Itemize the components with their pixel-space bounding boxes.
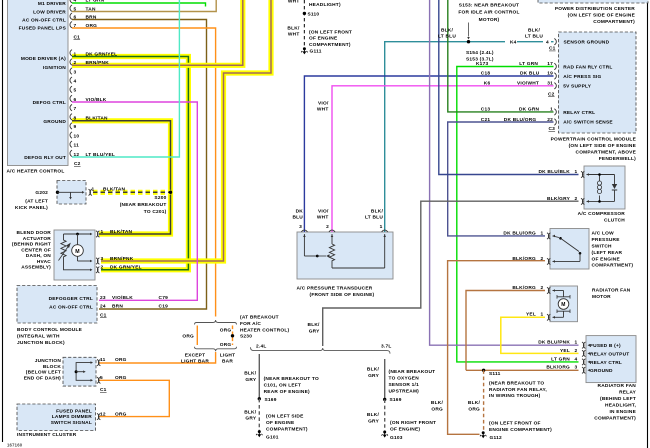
svg-text:BAR: BAR <box>222 358 233 364</box>
svg-text:BLK/ORG: BLK/ORG <box>512 256 536 262</box>
svg-text:C2: C2 <box>548 91 555 97</box>
svg-text:(ON LEFT FRONT: (ON LEFT FRONT <box>309 29 352 35</box>
svg-text:C3: C3 <box>549 126 556 132</box>
svg-text:S169: S169 <box>390 397 402 403</box>
wire VIO/WHT (transducer pin 2 to PCM pin 31) <box>332 86 554 232</box>
svg-text:17: 17 <box>547 61 553 67</box>
svg-text:VIO/WHT: VIO/WHT <box>517 81 539 87</box>
svg-text:FOR A/C: FOR A/C <box>240 321 261 327</box>
svg-text:22: 22 <box>547 117 553 123</box>
svg-text:YEL: YEL <box>526 312 536 318</box>
svg-text:GRY: GRY <box>309 328 320 334</box>
svg-text:BLK/: BLK/ <box>244 371 257 377</box>
svg-text:ORG: ORG <box>220 342 232 348</box>
svg-text:7: 7 <box>74 23 77 29</box>
svg-text:(ON LEFT FRONT OF: (ON LEFT FRONT OF <box>489 421 541 427</box>
svg-text:(INTEGRAL WITH: (INTEGRAL WITH <box>17 334 60 340</box>
svg-text:BLK/: BLK/ <box>367 367 380 373</box>
svg-text:G202: G202 <box>35 190 48 196</box>
svg-text:ORG: ORG <box>220 327 232 333</box>
wire DK GRN/YEL (mode driver A: heater pin 1 to blend door pin 2, highlighted) <box>72 57 188 270</box>
wire LT GRN (PCM pin 17 rad fan rly ctrl to relay pin 4) <box>457 67 579 362</box>
svg-text:LIGHT: LIGHT <box>220 352 236 358</box>
splice S110 <box>303 12 306 15</box>
splice S169 (3.7L) <box>383 398 386 401</box>
svg-text:WHT: WHT <box>317 215 329 221</box>
svg-text:FOR IDLE AIR CONTROL: FOR IDLE AIR CONTROL <box>458 10 519 16</box>
wire LT BLU/YEL (defog rly out: heater pin 12, exits top) <box>72 0 179 157</box>
svg-text:(LEFT REAR: (LEFT REAR <box>592 250 623 256</box>
svg-text:(AT LEFT: (AT LEFT <box>25 199 48 205</box>
blend door actuator internals: motor M and variable resistor <box>64 233 91 235</box>
svg-text:FUSED PANEL LPS: FUSED PANEL LPS <box>19 25 67 31</box>
S153 callout arrow <box>468 23 470 37</box>
svg-text:K6: K6 <box>484 81 491 87</box>
svg-text:COMPARTMENT): COMPARTMENT) <box>593 19 635 25</box>
svg-text:POWER DISTRIBUTION CENTER: POWER DISTRIBUTION CENTER <box>555 6 635 12</box>
svg-text:LOW DRIVER: LOW DRIVER <box>33 9 66 15</box>
svg-text:FUSED B (+): FUSED B (+) <box>590 343 621 349</box>
svg-text:M: M <box>561 302 565 308</box>
junction block box <box>63 357 96 386</box>
wire DK BLU/BLK (from top to A/C compressor clutch pin 1) <box>439 0 579 175</box>
svg-text:MODE DRIVER (A): MODE DRIVER (A) <box>21 56 66 62</box>
radiator fan motor internals <box>547 287 549 293</box>
wire DK BLU (transducer pin 3 to PCM pin 19) <box>304 76 553 232</box>
svg-text:DK BLU/ORG: DK BLU/ORG <box>503 230 536 236</box>
svg-text:K4: K4 <box>510 40 517 46</box>
svg-text:BRN/PNK: BRN/PNK <box>110 256 134 262</box>
svg-text:TO OXYGEN: TO OXYGEN <box>389 376 420 382</box>
ground G112 <box>482 431 485 434</box>
power distribution center box fragment (cut off at top) <box>538 0 648 3</box>
svg-text:BRN: BRN <box>112 304 123 310</box>
svg-text:C101, ON LEFT: C101, ON LEFT <box>264 383 302 389</box>
svg-text:11: 11 <box>74 143 80 149</box>
svg-text:3.7L: 3.7L <box>381 343 391 349</box>
svg-text:GRY: GRY <box>245 416 256 422</box>
wire DK BLU/ORG (PCM pin 22 to A/C low pressure switch pin 1) <box>448 122 554 236</box>
junction block internals: bus with arrows <box>76 363 91 381</box>
svg-text:ASSEMBLY): ASSEMBLY) <box>21 265 51 271</box>
svg-text:DK BLU: DK BLU <box>520 71 540 77</box>
svg-text:GRY: GRY <box>245 377 256 383</box>
svg-text:BLU: BLU <box>292 215 303 221</box>
radiator fan motor box <box>550 286 578 322</box>
svg-text:(BEHIND LEFT: (BEHIND LEFT <box>600 396 636 402</box>
svg-text:ENGINE COMPARTMENT): ENGINE COMPARTMENT) <box>489 427 552 433</box>
svg-text:A/C COMPRESSOR: A/C COMPRESSOR <box>578 211 626 217</box>
svg-text:(NEAR BREAKOUT: (NEAR BREAKOUT <box>389 369 436 375</box>
page left border <box>2 0 4 442</box>
svg-text:OF ENGINE): OF ENGINE) <box>390 427 420 433</box>
svg-text:S111: S111 <box>489 371 501 377</box>
svg-text:1: 1 <box>575 340 578 346</box>
svg-text:ORG: ORG <box>468 406 480 412</box>
svg-text:COMPARTMENT): COMPARTMENT) <box>266 427 308 433</box>
instrument cluster pin 12 connector <box>97 413 99 419</box>
svg-text:VIO/BLK: VIO/BLK <box>86 97 107 103</box>
svg-text:BLEND DOOR: BLEND DOOR <box>17 230 52 236</box>
svg-text:(ON LEFT SIDE: (ON LEFT SIDE <box>266 414 304 420</box>
svg-text:LT GRN: LT GRN <box>551 356 570 362</box>
splice S230 <box>231 334 234 337</box>
svg-text:M: M <box>75 249 80 255</box>
svg-text:4: 4 <box>74 78 77 84</box>
svg-text:167160: 167160 <box>7 443 23 448</box>
svg-text:BRN: BRN <box>86 14 97 20</box>
svg-text:COMPARTMENT, ABOVE: COMPARTMENT, ABOVE <box>576 149 637 155</box>
wire BLK/LT BLU (transducer pin 1 to PCM pin 4 via S153/S154) <box>385 42 554 232</box>
svg-text:(NEAR BREAKOUT: (NEAR BREAKOUT <box>120 202 167 208</box>
svg-text:DEFOG CTRL: DEFOG CTRL <box>33 100 66 106</box>
svg-text:BLK/: BLK/ <box>431 400 444 406</box>
svg-text:(ON LEFT SIDE OF ENGINE: (ON LEFT SIDE OF ENGINE <box>569 143 637 149</box>
svg-text:CLUTCH: CLUTCH <box>604 218 625 224</box>
svg-text:WHT: WHT <box>317 107 329 113</box>
svg-text:24: 24 <box>100 304 106 310</box>
radiator fan relay box <box>586 336 636 383</box>
svg-text:RADIATOR FAN RELAY,: RADIATOR FAN RELAY, <box>489 387 547 393</box>
svg-text:C18: C18 <box>481 71 491 77</box>
svg-text:LT GRN: LT GRN <box>86 0 105 4</box>
radiator fan relay pin connectors <box>582 342 584 348</box>
svg-text:12: 12 <box>74 152 80 158</box>
svg-text:ORG: ORG <box>115 357 127 363</box>
svg-text:LIGHT BAR: LIGHT BAR <box>181 358 209 364</box>
svg-text:19: 19 <box>547 71 553 77</box>
svg-text:ORG: ORG <box>182 333 194 339</box>
A/C pressure transducer box <box>297 232 393 279</box>
svg-text:ORG: ORG <box>115 375 127 381</box>
ground G103 <box>383 431 386 434</box>
svg-text:IGNITION: IGNITION <box>43 65 66 71</box>
svg-text:4: 4 <box>74 0 77 4</box>
A/C low pressure switch internals <box>547 233 549 239</box>
svg-text:GRY: GRY <box>368 373 379 379</box>
svg-text:C13: C13 <box>481 107 491 113</box>
svg-text:DK BLU/ORG: DK BLU/ORG <box>504 117 537 123</box>
svg-text:C1: C1 <box>100 387 107 393</box>
svg-text:A/C LOW: A/C LOW <box>592 231 615 237</box>
svg-text:BRN/PNK: BRN/PNK <box>86 60 110 66</box>
svg-text:WHT: WHT <box>288 32 300 38</box>
page right border <box>647 0 649 448</box>
svg-text:(AT BREAKOUT: (AT BREAKOUT <box>240 314 279 320</box>
svg-text:2: 2 <box>326 224 329 230</box>
svg-text:CENTER OF: CENTER OF <box>21 247 51 253</box>
A/C low pressure switch box <box>550 229 589 270</box>
svg-text:1: 1 <box>541 312 544 318</box>
svg-text:A/C PRESS SIG: A/C PRESS SIG <box>563 74 601 80</box>
svg-text:4: 4 <box>575 356 578 362</box>
svg-text:3: 3 <box>575 365 578 371</box>
svg-text:BLK/: BLK/ <box>528 27 541 33</box>
brace split BLK/GRY 2.4L/3.7L <box>251 347 391 353</box>
svg-text:(ON RIGHT FRONT: (ON RIGHT FRONT <box>390 420 436 426</box>
svg-text:DEFOG RLY OUT: DEFOG RLY OUT <box>24 155 66 161</box>
svg-text:1: 1 <box>74 51 77 57</box>
svg-text:AC ON-OFF CTRL: AC ON-OFF CTRL <box>49 305 93 311</box>
svg-text:KICK PANEL): KICK PANEL) <box>15 205 48 211</box>
svg-text:LT BLU: LT BLU <box>365 215 383 221</box>
svg-text:FENDERWELL): FENDERWELL) <box>599 156 636 162</box>
svg-text:DK GRN: DK GRN <box>519 107 540 113</box>
svg-text:11: 11 <box>100 357 106 363</box>
wire ORG except-light-bar branch <box>196 326 198 346</box>
A/C compressor clutch box <box>584 166 625 209</box>
svg-text:BLK/TAN: BLK/TAN <box>86 116 109 122</box>
wire BLK/ORG (S111 to relay pin 3 ground) <box>466 369 579 371</box>
wire YEL (radiator fan motor pin 1 to relay pin 2) <box>501 317 579 353</box>
svg-text:BLK/: BLK/ <box>287 25 300 31</box>
svg-text:9: 9 <box>74 124 77 130</box>
svg-text:COMPARTMENT): COMPARTMENT) <box>594 416 636 422</box>
svg-text:DEFOGGER CTRL: DEFOGGER CTRL <box>49 296 93 302</box>
svg-text:31: 31 <box>547 81 553 87</box>
svg-text:10: 10 <box>74 133 80 139</box>
svg-text:5: 5 <box>74 6 77 12</box>
wire BLK/GRY 2.4L branch to S169 <box>258 354 260 399</box>
svg-text:3: 3 <box>74 69 77 75</box>
svg-text:LT BLU/YEL: LT BLU/YEL <box>86 152 116 158</box>
svg-text:BLK/: BLK/ <box>371 208 384 214</box>
svg-text:DK GRN/YEL: DK GRN/YEL <box>110 265 142 271</box>
svg-text:DASH, ON: DASH, ON <box>26 253 52 259</box>
wire DK GRN (from top to PCM pin 1 relay ctrl) <box>448 0 554 112</box>
svg-text:(FRONT SIDE OF ENGINE): (FRONT SIDE OF ENGINE) <box>310 292 375 298</box>
svg-text:BLK/GRY: BLK/GRY <box>547 196 571 202</box>
A/C heater control pin connectors <box>70 0 72 3</box>
svg-text:WHT: WHT <box>288 0 300 4</box>
svg-text:(NEAR BREAKOUT TO: (NEAR BREAKOUT TO <box>489 380 544 386</box>
svg-text:DK GRN/YEL: DK GRN/YEL <box>86 51 118 57</box>
svg-text:JUNCTION BLOCK): JUNCTION BLOCK) <box>17 340 65 346</box>
PCM pin connectors <box>554 39 556 45</box>
svg-text:ORG: ORG <box>86 23 98 29</box>
svg-text:4: 4 <box>546 40 549 46</box>
svg-text:G111: G111 <box>310 48 322 54</box>
svg-text:POWERTRAIN CONTROL MODULE: POWERTRAIN CONTROL MODULE <box>551 136 637 142</box>
svg-text:HVAC: HVAC <box>37 259 51 265</box>
svg-text:SENSOR 1/1: SENSOR 1/1 <box>389 382 420 388</box>
svg-text:LAMPS DIMMER: LAMPS DIMMER <box>52 414 93 420</box>
svg-text:RELAY OUTPUT: RELAY OUTPUT <box>590 351 629 357</box>
wire BRN (AC on-off ctrl: heater pin 6 to BCM pin 24) <box>72 20 207 310</box>
svg-text:AC ON-OFF CTRL: AC ON-OFF CTRL <box>22 17 66 23</box>
svg-text:BLK/: BLK/ <box>468 400 481 406</box>
wire BRN/PNK (ignition: heater pin 2, exits top, highlighted) <box>72 0 243 65</box>
svg-text:TAN: TAN <box>86 6 96 12</box>
svg-text:K173: K173 <box>476 61 488 67</box>
svg-text:A/C PRESSURE TRANSDUCER: A/C PRESSURE TRANSDUCER <box>297 286 373 292</box>
svg-text:12: 12 <box>100 411 106 417</box>
wire BLK/GRY dashed to G103 <box>384 399 386 431</box>
svg-text:FUSED PANEL: FUSED PANEL <box>56 408 92 414</box>
svg-text:A/C SWITCH SENSE: A/C SWITCH SENSE <box>563 120 613 126</box>
svg-text:SWITCH: SWITCH <box>592 244 613 250</box>
svg-text:C2: C2 <box>74 161 81 167</box>
svg-text:VIO/: VIO/ <box>318 100 329 106</box>
svg-text:RELAY CTRL: RELAY CTRL <box>590 360 622 366</box>
svg-text:BLK/: BLK/ <box>441 27 454 33</box>
svg-text:S154 (2.4L): S154 (2.4L) <box>466 50 494 56</box>
svg-text:YEL: YEL <box>560 348 570 354</box>
svg-text:HEATER CONTROL): HEATER CONTROL) <box>240 327 289 333</box>
svg-text:(ON LEFT SIDE OF ENGINE: (ON LEFT SIDE OF ENGINE <box>568 13 636 19</box>
svg-text:5: 5 <box>74 88 77 94</box>
svg-text:2.4L: 2.4L <box>256 343 266 349</box>
svg-text:MOTOR): MOTOR) <box>479 17 500 23</box>
svg-text:1: 1 <box>92 187 95 193</box>
svg-text:JUNCTION: JUNCTION <box>35 358 62 364</box>
svg-text:C1: C1 <box>74 34 81 40</box>
svg-text:BLK/ORG: BLK/ORG <box>512 285 536 291</box>
splice S111 <box>482 369 485 372</box>
ground G101 <box>258 430 261 433</box>
svg-text:DK BLU/BLK: DK BLU/BLK <box>538 169 570 175</box>
wire BLK/ORG dashed (S111 to G112) <box>483 370 485 431</box>
svg-text:BLK/ORG: BLK/ORG <box>546 365 570 371</box>
svg-text:RELAY CTRL: RELAY CTRL <box>563 110 595 116</box>
A/C heater control connector box <box>8 0 69 166</box>
wire ORG (fused panel lps, pin 7 down to light-bar split) <box>72 28 216 317</box>
A/C pressure transducer internals: potentiometer <box>301 230 307 232</box>
svg-text:6: 6 <box>74 14 77 20</box>
svg-text:C1: C1 <box>100 313 107 319</box>
wire DK BLU/PNK (from top to relay pin 1 fused B+) <box>430 0 579 345</box>
ground G111 <box>303 47 306 50</box>
svg-text:LT GRN: LT GRN <box>519 61 538 67</box>
svg-text:OF ENGINE: OF ENGINE <box>309 36 338 42</box>
svg-text:S230: S230 <box>240 334 252 340</box>
wire BLK/WHT dashed (S110 to G111) <box>303 0 305 49</box>
svg-text:BLK/TAN: BLK/TAN <box>110 229 133 235</box>
svg-text:2: 2 <box>541 285 544 291</box>
svg-text:(NEAR BREAKOUT TO: (NEAR BREAKOUT TO <box>264 376 319 382</box>
svg-text:ORG: ORG <box>115 411 127 417</box>
svg-text:ACTUATOR: ACTUATOR <box>23 236 52 242</box>
svg-text:S153: NEAR BREAKOUT: S153: NEAR BREAKOUT <box>459 2 519 8</box>
svg-text:1: 1 <box>575 169 578 175</box>
wire BLK/GRY (compressor clutch pin 2 down to engine ground split) <box>323 201 579 346</box>
body control module box <box>17 286 97 324</box>
svg-text:6: 6 <box>74 97 77 103</box>
wire BRN/PNK (blend door pin 3, exits top, highlighted) <box>101 0 271 261</box>
svg-text:7: 7 <box>74 106 77 112</box>
svg-text:IN ENGINE: IN ENGINE <box>609 409 636 415</box>
svg-text:M1 DRIVER: M1 DRIVER <box>38 1 66 7</box>
svg-text:2: 2 <box>101 265 104 271</box>
svg-text:BODY CONTROL MODULE: BODY CONTROL MODULE <box>17 327 83 333</box>
svg-text:DK: DK <box>296 208 304 214</box>
svg-text:GROUND: GROUND <box>590 368 613 374</box>
powertrain control module box <box>559 32 637 133</box>
wire ORG light-bar branch (dashed) with splice S230 <box>232 326 234 346</box>
brace rejoin ORG (bottom) <box>195 347 237 352</box>
svg-text:OF ENGINE: OF ENGINE <box>266 420 295 426</box>
svg-text:BLK/: BLK/ <box>244 409 257 415</box>
svg-text:EXCEPT: EXCEPT <box>185 352 206 358</box>
wire BLK/GRY dashed to G101 <box>258 399 260 431</box>
svg-text:G101: G101 <box>266 435 279 441</box>
brace split ORG except/light bar (top) <box>195 320 237 325</box>
svg-text:C21: C21 <box>481 117 491 123</box>
svg-text:8: 8 <box>74 116 77 122</box>
svg-text:1: 1 <box>101 229 104 235</box>
G202 ground splice box <box>57 181 86 205</box>
wire LT GRN (M1 driver, pin 4, ends with stub) <box>72 3 206 7</box>
svg-text:BLK/: BLK/ <box>367 412 380 418</box>
svg-text:2: 2 <box>575 196 578 202</box>
svg-text:G112: G112 <box>490 435 502 441</box>
svg-text:IN WIRING TROUGH): IN WIRING TROUGH) <box>489 393 541 399</box>
svg-text:3: 3 <box>299 224 302 230</box>
svg-text:RADIATOR FAN: RADIATOR FAN <box>592 287 631 293</box>
wire ORG junction block pin 5 to instrument cluster pin 12 <box>99 380 169 416</box>
svg-text:2: 2 <box>575 348 578 354</box>
A/C compressor clutch internals: coil and diode <box>581 171 583 177</box>
svg-text:LT BLU: LT BLU <box>525 34 543 40</box>
wire BLK/GRY 3.7L branch to S169 <box>384 359 386 399</box>
svg-text:BLK/: BLK/ <box>308 322 321 328</box>
svg-text:2: 2 <box>74 60 77 66</box>
svg-text:COMPARTMENT): COMPARTMENT) <box>592 263 634 269</box>
svg-text:23: 23 <box>100 295 106 301</box>
svg-text:C1: C1 <box>549 46 556 52</box>
svg-text:S110: S110 <box>308 11 320 17</box>
wire TAN (low driver, pin 5, exits top) <box>72 0 216 12</box>
svg-text:A/C HEATER CONTROL: A/C HEATER CONTROL <box>7 169 65 175</box>
instrument cluster box <box>17 404 96 431</box>
svg-text:SENSOR GROUND: SENSOR GROUND <box>564 40 610 46</box>
svg-text:1: 1 <box>380 224 383 230</box>
svg-text:(BEHIND RIGHT: (BEHIND RIGHT <box>12 242 51 248</box>
svg-text:GROUND: GROUND <box>43 119 66 125</box>
wire VIO/BLK (defog ctrl: heater pin 6 to BCM pin 23) <box>72 102 197 300</box>
svg-text:UPSTREAM): UPSTREAM) <box>389 389 420 395</box>
svg-text:RELAY: RELAY <box>619 390 636 396</box>
svg-text:5V SUPPLY: 5V SUPPLY <box>563 83 592 89</box>
svg-text:C79: C79 <box>159 295 169 301</box>
svg-text:HEADLIGHT): HEADLIGHT) <box>309 2 341 8</box>
splice S153/S154 <box>467 40 470 43</box>
svg-text:5: 5 <box>100 375 103 381</box>
svg-text:OF ENGINE: OF ENGINE <box>592 256 621 262</box>
wire ORG to junction block pin 11 <box>99 352 216 363</box>
svg-text:BLK/TAN: BLK/TAN <box>103 187 126 193</box>
svg-text:END OF DASH): END OF DASH) <box>24 375 61 381</box>
svg-text:COMPARTMENT): COMPARTMENT) <box>309 42 351 48</box>
svg-text:HEADLIGHT,: HEADLIGHT, <box>605 403 636 409</box>
svg-text:TO C201): TO C201) <box>144 209 167 215</box>
svg-text:G103: G103 <box>390 435 403 441</box>
svg-text:S169: S169 <box>265 397 277 403</box>
svg-text:S200: S200 <box>154 195 166 201</box>
splice S169 (2.4L) <box>258 397 261 400</box>
wire BLK/ORG (radiator fan motor pin 2 to S111) <box>466 291 545 371</box>
svg-text:SWITCH SIGNAL: SWITCH SIGNAL <box>51 420 92 426</box>
svg-text:VIO/BLK: VIO/BLK <box>112 295 133 301</box>
svg-text:1: 1 <box>541 230 544 236</box>
svg-text:PRESSURE: PRESSURE <box>592 237 621 243</box>
svg-text:LT BLU: LT BLU <box>438 34 456 40</box>
svg-text:VIO/: VIO/ <box>318 208 329 214</box>
svg-text:DK BLU/PNK: DK BLU/PNK <box>538 340 570 346</box>
svg-text:RADIATOR FAN: RADIATOR FAN <box>598 383 637 389</box>
svg-text:ORG: ORG <box>431 406 443 412</box>
svg-text:REAR OF ENGINE): REAR OF ENGINE) <box>264 389 310 395</box>
